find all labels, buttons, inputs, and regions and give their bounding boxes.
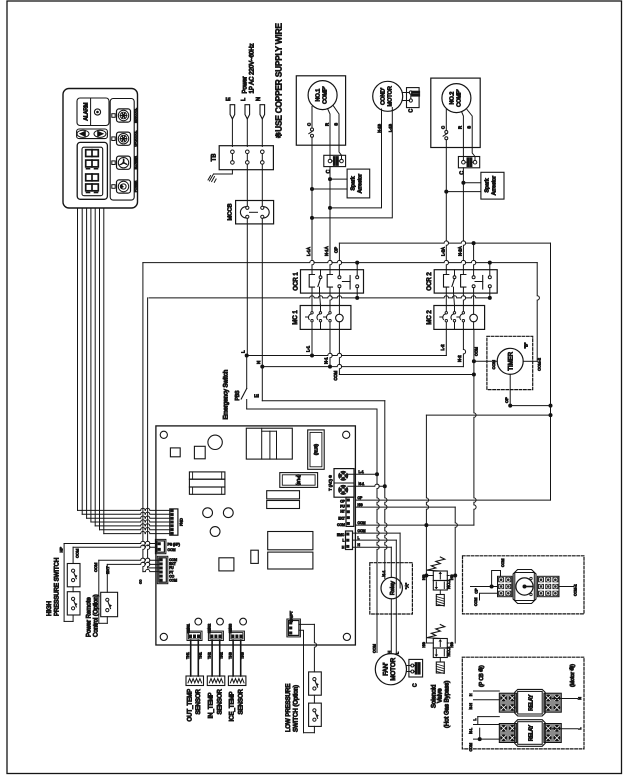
svg-text:Relay: Relay bbox=[390, 581, 396, 595]
internal protector NO.2 bbox=[445, 131, 448, 134]
terminal block T(AC)S bbox=[334, 469, 354, 498]
wire L to TB bbox=[246, 119, 248, 147]
low pressure switch 2 bbox=[309, 703, 322, 726]
safety bus lower bbox=[149, 296, 490, 298]
wire N to PCB N-1 bbox=[262, 400, 385, 402]
wires OCR2 to MC2 bbox=[445, 293, 447, 305]
timer dial bbox=[516, 578, 533, 595]
wire PBS to PCB L-1 bbox=[247, 408, 377, 410]
svg-text:C: C bbox=[326, 169, 332, 173]
low pressure switch 1 bbox=[309, 672, 322, 695]
wire PCB L-1 to riser bbox=[348, 473, 377, 475]
solenoid valve NO.1 bbox=[427, 557, 445, 571]
temperature sensor wires TH1 TH2 TH3 bbox=[190, 641, 192, 677]
controller button POWER bbox=[117, 180, 131, 193]
svg-text:N-1A: N-1A bbox=[324, 246, 329, 256]
svg-text:MC 2: MC 2 bbox=[427, 310, 433, 325]
svg-text:COM-2: COM-2 bbox=[574, 584, 578, 596]
svg-text:(PU8): (PU8) bbox=[296, 475, 301, 487]
OUT_TEMP SENSOR bbox=[186, 676, 204, 686]
remote control loop wiring bbox=[98, 560, 100, 623]
wire EXT remote to PCB bbox=[107, 562, 159, 564]
emergency switch PBS bbox=[246, 356, 248, 389]
svg-text:CP: CP bbox=[358, 496, 363, 500]
remote controller unit bbox=[63, 89, 138, 209]
wire COM to PCB bbox=[73, 545, 157, 547]
connector FND bbox=[170, 509, 178, 535]
condenser fan motor COND MOTOR bbox=[373, 81, 403, 111]
svg-text:OCR 2: OCR 2 bbox=[427, 272, 433, 291]
bus N bbox=[262, 364, 463, 366]
svg-text:L: L bbox=[358, 536, 360, 540]
svg-text:COM: COM bbox=[93, 563, 98, 572]
svg-text:COM: COM bbox=[358, 521, 366, 525]
svg-text:TB: TB bbox=[212, 154, 218, 162]
svg-text:Valve: Valve bbox=[438, 688, 444, 703]
ground symbol bbox=[214, 170, 233, 174]
MCCB link bar bbox=[250, 211, 258, 213]
relay A coil bbox=[381, 577, 402, 598]
wire E to TB bbox=[231, 119, 233, 147]
wire L TB to MCCB bbox=[246, 164, 248, 205]
svg-text:COM: COM bbox=[333, 370, 338, 380]
svg-text:FND: FND bbox=[180, 518, 184, 526]
wire HP to PCB bbox=[64, 541, 157, 543]
spark arrestor NO.1 leads bbox=[330, 178, 347, 180]
svg-text:PU: PU bbox=[340, 504, 345, 508]
svg-text:COM: COM bbox=[491, 360, 496, 369]
remote controller button strip bbox=[110, 99, 134, 201]
cond motor wire L-1B bbox=[312, 108, 392, 218]
wire L-2A compressor2 to OCR2 bbox=[446, 148, 448, 270]
svg-text:N-1: N-1 bbox=[324, 357, 329, 364]
svg-text:TIMER: TIMER bbox=[509, 351, 515, 370]
MCCB pole N bbox=[261, 206, 264, 209]
svg-text:COM: COM bbox=[474, 598, 478, 606]
PCB small part 2 bbox=[194, 446, 205, 459]
svg-text:N-1B: N-1B bbox=[378, 124, 382, 133]
svg-text:Power: Power bbox=[243, 76, 249, 93]
svg-text:HT: HT bbox=[340, 509, 344, 513]
svg-text:IN_TEMP: IN_TEMP bbox=[209, 692, 215, 718]
svg-text:CP: CP bbox=[475, 588, 479, 594]
svg-text:BLOWER: BLOWER bbox=[134, 155, 138, 169]
svg-text:L: L bbox=[396, 652, 400, 654]
svg-text:MOTOR: MOTOR bbox=[390, 657, 397, 680]
svg-text:COM-2: COM-2 bbox=[537, 357, 542, 371]
svg-text:H: H bbox=[388, 651, 392, 654]
PCB circles bbox=[203, 508, 213, 518]
CP riser right side bbox=[550, 243, 552, 500]
svg-text:HG: HG bbox=[450, 574, 454, 580]
svg-text:Spark: Spark bbox=[485, 178, 491, 192]
svg-text:COM: COM bbox=[501, 559, 505, 567]
svg-text:COM: COM bbox=[469, 743, 473, 751]
svg-text:HG: HG bbox=[422, 642, 426, 648]
wire PCB N-1 to riser bbox=[348, 484, 385, 486]
wires OCR1 to MC1 bbox=[311, 293, 313, 305]
wire E emergency to N drop bbox=[261, 367, 263, 401]
arrow buttons bbox=[77, 129, 108, 139]
wire EMC COM to relay A bbox=[353, 532, 401, 534]
svg-text:MC 1: MC 1 bbox=[293, 310, 299, 325]
compressor NO.2 motor bbox=[442, 84, 471, 113]
supply terminal E bbox=[230, 105, 235, 119]
controller button UPO/COOL bbox=[117, 132, 131, 145]
wire COM remote to PCB bbox=[99, 558, 159, 560]
svg-text:L: L bbox=[241, 98, 247, 101]
svg-text:C: C bbox=[409, 109, 415, 113]
connector EXT/CO 6pin bbox=[159, 558, 167, 582]
wire EMC H bbox=[353, 546, 392, 548]
junction dots on compressor wires bbox=[310, 216, 314, 220]
svg-text:E: E bbox=[226, 97, 232, 101]
spark arrestor NO.1 bbox=[347, 169, 370, 198]
supply terminal L bbox=[245, 105, 250, 119]
timer terminal strip right bbox=[537, 576, 559, 596]
svg-text:UPO/COOL: UPO/COOL bbox=[134, 130, 138, 146]
ALARM indicator box bbox=[77, 98, 109, 126]
svg-text:L-1: L-1 bbox=[306, 345, 311, 352]
svg-text:N-1: N-1 bbox=[359, 482, 365, 486]
svg-text:H: H bbox=[469, 693, 473, 696]
svg-text:TH1: TH1 bbox=[198, 652, 202, 659]
svg-text:EXT: EXT bbox=[105, 566, 110, 574]
svg-text:(P CB 측): (P CB 측) bbox=[477, 665, 485, 687]
svg-text:N-1: N-1 bbox=[382, 570, 386, 576]
ICE_TEMP SENSOR bbox=[228, 676, 246, 686]
svg-text:N: N bbox=[256, 97, 262, 101]
svg-text:LOW PRESSURE: LOW PRESSURE bbox=[286, 684, 292, 732]
safety wire to PCB FU bbox=[148, 298, 150, 568]
svg-text:OP: OP bbox=[334, 247, 339, 253]
controller cable wires to PCB FND connector bbox=[78, 208, 170, 534]
svg-text:R: R bbox=[458, 126, 463, 129]
7-segment display bbox=[77, 142, 107, 199]
svg-text:C: C bbox=[459, 171, 465, 175]
PCB part RU8 bbox=[308, 430, 325, 469]
svg-text:L-1B: L-1B bbox=[389, 124, 393, 132]
solenoid feed left bbox=[425, 525, 427, 643]
timer pin OP bbox=[509, 374, 511, 405]
wire HG from PCB bbox=[356, 506, 455, 508]
wire OCR2 coil drop from OP bus bbox=[474, 243, 476, 270]
svg-text:Solenoid: Solenoid bbox=[431, 685, 437, 708]
svg-text:SENSOR: SENSOR bbox=[196, 688, 202, 714]
PCB part PU8 bbox=[280, 473, 318, 488]
svg-text:COMP': COMP' bbox=[457, 89, 463, 107]
timer device body bbox=[513, 570, 536, 604]
timer dashed box bbox=[487, 336, 533, 389]
svg-text:(Motor 측): (Motor 측) bbox=[568, 664, 576, 687]
HP switch loop wiring bbox=[63, 544, 65, 622]
svg-text:ICE_TEMP: ICE_TEMP bbox=[230, 691, 236, 721]
svg-text:L-2A: L-2A bbox=[441, 247, 446, 256]
svg-text:CO: CO bbox=[139, 579, 143, 584]
run capacitor C NO.1 bbox=[324, 155, 346, 166]
bus L bbox=[247, 353, 447, 355]
power remote control option box bbox=[101, 592, 118, 616]
LP switch wiring bbox=[299, 623, 315, 625]
PCB big rects bbox=[268, 532, 313, 550]
wire N-1 MC1 to bus N bbox=[330, 329, 332, 366]
supply terminal N bbox=[260, 105, 265, 119]
pin C NO.2 bbox=[445, 110, 447, 131]
svg-text:※USE COPPER SUPPLY WIRE: ※USE COPPER SUPPLY WIRE bbox=[275, 23, 284, 138]
svg-text:SEN3: SEN3 bbox=[229, 624, 233, 633]
controller button MIX/COOL bbox=[117, 109, 131, 122]
wire CP riser to PCB CP bbox=[356, 499, 551, 501]
pin S NO.1 bbox=[334, 106, 340, 145]
svg-text:N-H: N-H bbox=[469, 703, 473, 710]
relay output wires bbox=[553, 698, 578, 700]
pin C NO.1 bbox=[311, 107, 313, 129]
svg-text:1P AC 220V~60Hz: 1P AC 220V~60Hz bbox=[250, 43, 256, 93]
fan capacitor C bbox=[409, 659, 423, 677]
svg-text:HG: HG bbox=[450, 642, 454, 648]
svg-text:CP: CP bbox=[340, 499, 345, 503]
pin R NO.2 bbox=[462, 112, 464, 148]
svg-text:"B": "B" bbox=[524, 342, 529, 348]
solenoid feed right bbox=[455, 507, 457, 643]
overload relay OCR 1 bbox=[301, 270, 364, 293]
svg-text:COND': COND' bbox=[381, 88, 387, 105]
svg-text:C: C bbox=[307, 123, 312, 126]
connector EMC/L/H bbox=[346, 531, 353, 550]
svg-text:COM: COM bbox=[169, 579, 177, 583]
svg-text:RELAY: RELAY bbox=[529, 724, 535, 741]
bus COM from MC1 coil bbox=[339, 329, 341, 374]
wire L-1 MC1 to bus L bbox=[311, 329, 313, 355]
svg-text:EMC: EMC bbox=[337, 533, 345, 537]
svg-text:S: S bbox=[334, 123, 339, 126]
connector CP/PU/HT/EXT/COM bbox=[346, 497, 354, 526]
svg-text:SEN2: SEN2 bbox=[208, 624, 212, 633]
wire N-1 vertical to relay A bbox=[385, 486, 387, 578]
PCB relay bank bbox=[246, 428, 292, 459]
svg-text:COM: COM bbox=[358, 529, 366, 533]
relay unit dashed box bbox=[462, 657, 584, 749]
svg-text:L: L bbox=[473, 719, 477, 721]
svg-text:FAN': FAN' bbox=[383, 663, 390, 676]
PCB connector bars bbox=[189, 472, 225, 479]
wire N MCCB to node bbox=[261, 218, 263, 367]
svg-text:BN/FT: BN/FT bbox=[290, 610, 294, 622]
timer pin COM bbox=[474, 360, 497, 362]
svg-text:N-L: N-L bbox=[469, 728, 473, 734]
svg-text:L: L bbox=[342, 539, 344, 543]
PCB round part bbox=[208, 435, 222, 449]
svg-text:NO.1: NO.1 bbox=[446, 579, 451, 589]
svg-text:OCR 1: OCR 1 bbox=[294, 272, 300, 291]
branch to solenoid feed bbox=[426, 414, 550, 416]
svg-text:RELAY: RELAY bbox=[529, 694, 535, 711]
wire L-1A compressor1 to OCR1 bbox=[312, 145, 314, 270]
relay A wires bbox=[384, 579, 386, 583]
svg-text:SENSOR: SENSOR bbox=[238, 688, 244, 714]
svg-text:TH3: TH3 bbox=[241, 652, 245, 659]
svg-text:COM: COM bbox=[373, 644, 377, 653]
svg-text:L: L bbox=[578, 728, 582, 730]
connector BN/FT bbox=[288, 621, 299, 636]
svg-text:OUT_TEMP: OUT_TEMP bbox=[187, 689, 193, 722]
svg-text:N: N bbox=[578, 697, 582, 700]
fan motor bbox=[375, 654, 406, 685]
svg-text:L-2: L-2 bbox=[440, 344, 445, 351]
svg-text:MCCB: MCCB bbox=[228, 203, 234, 220]
wire COM from PCB to solenoid bbox=[356, 524, 474, 526]
spark arrestor NO.2 leads bbox=[463, 182, 481, 184]
controller button BLOWER bbox=[117, 156, 131, 169]
pin S NO.2 bbox=[467, 110, 472, 148]
svg-text:L-1A: L-1A bbox=[306, 247, 311, 256]
svg-text:TH2: TH2 bbox=[207, 652, 211, 659]
timer pin COM-2 bbox=[523, 360, 537, 362]
svg-text:HP: HP bbox=[59, 547, 64, 553]
high pressure switch 1 bbox=[67, 564, 80, 587]
PCB small vertical rect bbox=[251, 550, 258, 563]
main control PCB bbox=[156, 426, 356, 645]
svg-text:Arrestor: Arrestor bbox=[358, 174, 364, 193]
wire N to TB bbox=[261, 119, 263, 147]
wire COM MC2 coil down bbox=[474, 329, 476, 525]
PCB mounting holes bbox=[160, 431, 167, 438]
svg-text:PRESSURE SWITCH: PRESSURE SWITCH bbox=[55, 558, 61, 616]
PCB mid rects bbox=[267, 491, 300, 499]
relay 2 bbox=[499, 724, 516, 743]
svg-text:NO.2: NO.2 bbox=[450, 92, 456, 105]
IN_TEMP SENSOR bbox=[207, 676, 225, 686]
svg-text:TH2: TH2 bbox=[220, 652, 224, 659]
OP bus top bbox=[339, 241, 550, 243]
wire N TB to MCCB bbox=[261, 164, 263, 205]
high pressure switch 2 bbox=[67, 592, 80, 615]
alarm LED bbox=[94, 109, 100, 115]
overload relay OCR 2 bbox=[434, 270, 497, 293]
svg-text:OP: OP bbox=[504, 397, 509, 403]
svg-text:SENSOR: SENSOR bbox=[217, 688, 223, 714]
OP wire to OCR1 coil circuit bbox=[339, 243, 341, 270]
svg-text:COM: COM bbox=[75, 549, 80, 558]
circuit breaker MCCB bbox=[236, 201, 274, 224]
sensor connectors SEN1 SEN2 SEN3 bbox=[187, 631, 202, 640]
timer device dashed box bbox=[463, 556, 585, 614]
cond motor wire N-1B bbox=[330, 109, 382, 208]
relay 1 bbox=[499, 693, 516, 712]
svg-text:L-1: L-1 bbox=[359, 470, 364, 474]
svg-text:POWER: POWER bbox=[134, 180, 138, 192]
run capacitor C NO.2 bbox=[458, 157, 479, 168]
compressor NO.1 motor bbox=[308, 81, 337, 110]
capacitor C for cond motor bbox=[407, 88, 420, 108]
svg-text:SEN1: SEN1 bbox=[186, 624, 190, 633]
wire N-2A compressor2 to OCR2 bbox=[463, 168, 465, 270]
svg-text:COM: COM bbox=[337, 523, 345, 527]
contactor MC 1 bbox=[300, 306, 351, 330]
svg-text:(Hot Gas Bypass): (Hot Gas Bypass) bbox=[444, 681, 450, 728]
svg-text:PS (HP): PS (HP) bbox=[168, 542, 180, 546]
pin R NO.1 bbox=[328, 109, 331, 146]
svg-text:MOTOR: MOTOR bbox=[388, 86, 394, 106]
display digits 88:88 bbox=[86, 150, 99, 157]
svg-text:COMP': COMP' bbox=[323, 86, 329, 104]
svg-text:COM: COM bbox=[475, 347, 479, 356]
svg-text:C: C bbox=[413, 683, 419, 687]
svg-text:HIGH: HIGH bbox=[47, 601, 53, 616]
contactor MC 2 bbox=[434, 306, 485, 330]
svg-text:ALARM: ALARM bbox=[84, 103, 90, 121]
svg-text:NO.2: NO.2 bbox=[446, 646, 451, 656]
svg-text:S: S bbox=[467, 126, 472, 129]
svg-text:N-2A: N-2A bbox=[458, 246, 463, 256]
connector PS HP bbox=[157, 541, 165, 552]
wire N-2 MC2 to bus N bbox=[463, 329, 465, 366]
svg-text:T (AC) S: T (AC) S bbox=[328, 475, 333, 491]
svg-text:SWITCH (Option): SWITCH (Option) bbox=[294, 685, 300, 732]
svg-text:NO.1: NO.1 bbox=[316, 89, 322, 102]
wire L MCCB to node bbox=[246, 218, 248, 356]
relay A dashed box bbox=[370, 563, 413, 614]
svg-text:Power Remote: Power Remote bbox=[87, 597, 93, 637]
timer coil bbox=[497, 348, 523, 374]
wire L-1 vertical to fan COM bbox=[377, 474, 379, 652]
solenoid valve NO.2 bbox=[427, 625, 445, 639]
PCB square part bbox=[219, 558, 234, 571]
safety bus upper (aux contacts) bbox=[143, 260, 537, 262]
wire N-1A compressor1 to OCR1 bbox=[330, 167, 332, 270]
svg-text:EXT: EXT bbox=[338, 516, 344, 520]
svg-text:TH1: TH1 bbox=[186, 652, 190, 659]
svg-text:N: N bbox=[256, 361, 261, 364]
relay unit wiring bbox=[474, 690, 500, 692]
svg-text:Emergency Switch: Emergency Switch bbox=[224, 370, 230, 420]
svg-text:"A": "A" bbox=[405, 583, 410, 590]
wire L-2 MC2 to bus L bbox=[445, 329, 447, 355]
svg-text:C: C bbox=[441, 126, 446, 129]
svg-text:COM: COM bbox=[168, 548, 176, 552]
PCB circles near sensors bbox=[195, 618, 202, 625]
svg-text:MIX/COOL: MIX/COOL bbox=[134, 108, 138, 123]
svg-text:Spark: Spark bbox=[351, 176, 357, 190]
compressor NO.1 enclosure bbox=[296, 76, 345, 145]
svg-text:TH3: TH3 bbox=[228, 652, 232, 659]
wire EMC L bbox=[353, 539, 397, 541]
spark arrestor NO.2 bbox=[481, 172, 504, 199]
svg-text:R: R bbox=[325, 123, 330, 126]
svg-text:HG: HG bbox=[358, 503, 363, 507]
timer terminal strip left bbox=[498, 576, 512, 596]
compressor NO.2 enclosure bbox=[431, 78, 480, 147]
fan motor COM wire bbox=[376, 653, 378, 656]
svg-text:(RU8): (RU8) bbox=[314, 443, 319, 455]
terminal block TB bbox=[219, 146, 273, 170]
svg-text:PBS: PBS bbox=[235, 390, 241, 401]
safety wire to PCB FT bbox=[143, 263, 145, 572]
MCCB pole L bbox=[246, 206, 249, 209]
internal protector NO.1 bbox=[311, 128, 314, 131]
PCB small part bbox=[170, 448, 180, 457]
svg-text:Arrestor: Arrestor bbox=[492, 176, 498, 195]
svg-text:N-2: N-2 bbox=[457, 355, 462, 362]
